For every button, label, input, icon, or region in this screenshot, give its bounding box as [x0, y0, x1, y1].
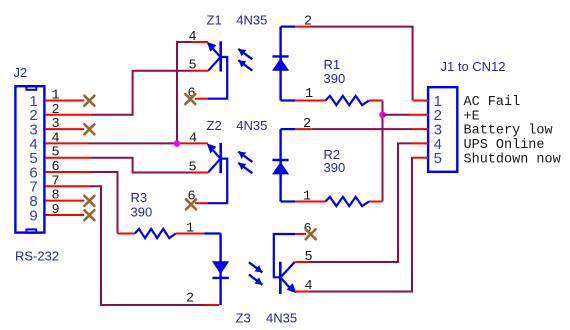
wire Z3 pin5 to J1.4 (UPS Online net): [308, 143, 411, 262]
svg-text:J2: J2: [14, 65, 28, 80]
J2 pin 7: [45, 174, 90, 189]
Z3 pin 6: [295, 222, 316, 239]
J1 pin 2 (+E): [409, 109, 480, 124]
svg-text:4N35: 4N35: [266, 310, 297, 325]
svg-text:390: 390: [324, 71, 346, 86]
J2 pin 4: [45, 131, 88, 146]
label R2: [324, 147, 341, 162]
resistor R1: [326, 96, 370, 105]
Z2 pin 4: [180, 131, 208, 146]
Z3-LED pin 1: [186, 222, 194, 237]
J1 pin 4 (UPS Online): [411, 138, 545, 153]
svg-text:UPS Online: UPS Online: [464, 138, 545, 153]
svg-text:Z2: Z2: [207, 118, 222, 133]
connector J1: [428, 87, 457, 172]
J1 pin numbers 1-5 (inside): [434, 93, 442, 167]
resistor R3: [135, 229, 176, 238]
svg-text:Battery low: Battery low: [464, 124, 553, 139]
Z3 pin 5: [295, 250, 313, 265]
J2 pin numbers 1-9 (inside): [29, 93, 37, 225]
svg-text:9: 9: [29, 207, 37, 224]
Z3-LED pin 2: [186, 292, 219, 307]
J2 pin 8: [45, 189, 94, 206]
connector J2: [15, 86, 44, 233]
label Z1 4N35: [236, 12, 267, 27]
svg-text:4: 4: [305, 279, 313, 294]
svg-text:+E: +E: [464, 109, 480, 124]
J1 pin 1 (AC Fail): [413, 95, 521, 110]
svg-text:2: 2: [52, 103, 60, 118]
svg-text:4: 4: [52, 131, 60, 146]
label R1: [324, 57, 341, 72]
resistor R2: [326, 197, 370, 206]
wire Z1-LED pin2 to J1.1 (AC Fail net): [310, 27, 413, 101]
svg-text:390: 390: [324, 160, 346, 175]
junction at (382.5,114.8): [379, 112, 386, 119]
Z1 pin 6: [185, 87, 207, 105]
svg-text:Shutdown now: Shutdown now: [464, 152, 561, 167]
Z1-LED pin 1: [295, 87, 326, 102]
J2 pin 1: [45, 89, 94, 106]
svg-text:390: 390: [131, 204, 153, 219]
svg-text:6: 6: [52, 160, 60, 175]
label R1 390: [324, 71, 346, 86]
svg-text:9: 9: [52, 203, 60, 218]
label Z3 4N35: [266, 310, 297, 325]
Z1-LED pin 2: [295, 14, 312, 29]
svg-text:2: 2: [186, 292, 194, 307]
svg-text:Z3: Z3: [236, 310, 251, 325]
svg-text:3: 3: [52, 117, 60, 132]
wire J2.2 to Z1 pin5: [91, 71, 192, 115]
Z3 pin 4: [295, 279, 313, 294]
opto-coupler Z2 phototransistor body: [207, 143, 228, 203]
svg-text:2: 2: [303, 117, 311, 132]
wire J2.6 to R3: [89, 172, 118, 234]
R2 right pin: [369, 201, 383, 203]
label R3 390: [131, 204, 153, 219]
J1 pin 3 (Battery low): [413, 124, 553, 139]
wire Z1 pin4 to node J2.4: [177, 42, 193, 143]
svg-text:4: 4: [189, 131, 197, 146]
wire junction to J1.2: [383, 114, 410, 116]
Z2 light arrows: [238, 152, 252, 174]
J1 pin 5 (Shutdown now): [413, 152, 561, 167]
R3 left pin: [118, 233, 135, 235]
label R3: [131, 190, 148, 205]
label R2 390: [324, 160, 346, 175]
label RS-232: [15, 248, 59, 263]
J2 pin 5: [45, 146, 91, 161]
svg-text:4N35: 4N35: [236, 12, 267, 27]
diode of Z1 (LED): [272, 27, 295, 101]
svg-text:7: 7: [52, 174, 60, 189]
svg-text:2: 2: [304, 14, 312, 29]
svg-text:1: 1: [52, 89, 60, 104]
opto-coupler Z3 phototransistor body: [274, 234, 297, 294]
label Z2: [207, 118, 222, 133]
Z1 pin 5: [189, 59, 209, 74]
R1 right pin: [369, 100, 383, 102]
wire J2.7 to Z3-LED pin2: [90, 186, 205, 305]
svg-text:5: 5: [52, 146, 60, 161]
Z2-LED pin 1: [295, 189, 326, 204]
wire J2.5 to Z2 pin5: [91, 158, 192, 173]
diode of Z2 (LED): [272, 129, 295, 201]
svg-text:8: 8: [52, 189, 60, 204]
opto-coupler Z1 phototransistor body: [207, 41, 228, 98]
R3 right pin: [176, 233, 205, 235]
label J1 to CN12: [441, 59, 506, 74]
J2 pin 6: [45, 160, 89, 175]
wire Z2-LED pin2 to J1.3 (Battery low net): [312, 128, 413, 130]
label Z1: [207, 12, 222, 27]
J2 pin 2: [45, 103, 91, 118]
wire J2.4 to Z2 pin4: [88, 142, 180, 144]
svg-text:RS-232: RS-232: [15, 248, 59, 263]
svg-text:1: 1: [305, 87, 313, 102]
junction at (177,143.4): [174, 140, 181, 147]
svg-text:1: 1: [303, 189, 311, 204]
svg-text:4N35: 4N35: [236, 118, 267, 133]
Z2 pin 5: [189, 160, 209, 175]
svg-text:1: 1: [186, 222, 194, 237]
svg-text:Z1: Z1: [207, 12, 222, 27]
svg-text:R3: R3: [131, 190, 148, 205]
wire R1 out to junction (+E net): [382, 101, 384, 202]
svg-text:5: 5: [434, 150, 442, 167]
label J2: [14, 65, 28, 80]
Z1 pin 4: [189, 30, 209, 45]
svg-text:5: 5: [189, 160, 197, 175]
J2 pin 9: [45, 203, 94, 220]
label Z2 4N35: [236, 118, 267, 133]
J2 pin 3: [45, 117, 94, 134]
svg-text:5: 5: [305, 250, 313, 265]
svg-text:J1 to CN12: J1 to CN12: [441, 59, 506, 74]
svg-text:5: 5: [189, 59, 197, 74]
Z2-LED pin 2: [295, 117, 312, 132]
svg-text:4: 4: [189, 30, 197, 45]
wire Z3 pin4 to J1.5 (Shutdown net): [309, 158, 413, 292]
label Z3: [236, 310, 251, 325]
Z3 light arrows: [249, 262, 263, 284]
diode of Z3 (LED): [204, 234, 229, 306]
Z2 pin 6: [186, 190, 207, 210]
Z1 light arrows: [238, 49, 252, 71]
svg-text:AC Fail: AC Fail: [464, 95, 521, 110]
